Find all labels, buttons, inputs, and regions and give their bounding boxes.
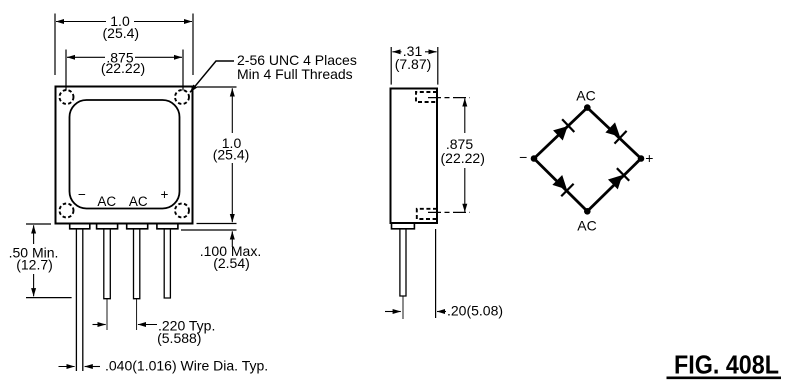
- center line top hole: [428, 97, 470, 99]
- screw hole top-right: [175, 90, 189, 104]
- svg-text:AC: AC: [576, 88, 595, 104]
- epoxy face (inner rounded square): [70, 100, 180, 209]
- pin 2: [104, 229, 111, 299]
- package body front view: [56, 87, 193, 224]
- svg-text:FIG. 408L: FIG. 408L: [674, 350, 779, 380]
- svg-text:.040(1.016) Wire Dia. Typ.: .040(1.016) Wire Dia. Typ.: [105, 357, 268, 373]
- dimension .040 wire dia: [59, 366, 75, 368]
- svg-text:AC: AC: [97, 194, 116, 209]
- svg-text:AC: AC: [577, 218, 596, 234]
- pin stub 2: [97, 224, 118, 229]
- svg-text:(22.22): (22.22): [101, 60, 145, 76]
- screw hole bottom-right: [175, 204, 189, 218]
- bridge wire top-right: [587, 108, 641, 159]
- diode D3 bottom-left: [551, 174, 574, 197]
- diode D4 bottom-right: [607, 168, 629, 191]
- dimension .31 (7.87): [390, 47, 392, 85]
- svg-text:−: −: [78, 187, 86, 202]
- center line bottom hole: [428, 211, 470, 213]
- side view body: [391, 89, 438, 224]
- svg-text:(7.87): (7.87): [395, 56, 432, 72]
- svg-text:Min 4 Full Threads: Min 4 Full Threads: [237, 66, 353, 82]
- hidden screw hole top (dashed): [416, 92, 437, 102]
- dimension .100 Max (2.54): [181, 229, 237, 231]
- screw hole bottom-left: [60, 204, 74, 218]
- pin stub 1: [70, 224, 90, 229]
- dimension 1.0 (25.4) horizontal top: [54, 14, 56, 76]
- note 2-56 UNC leader: [190, 61, 234, 92]
- diode D1 top-left: [552, 119, 574, 142]
- svg-text:−: −: [519, 149, 527, 165]
- dimension 1.0 (25.4) vertical right: [197, 86, 237, 88]
- hidden screw hole bottom (dashed): [417, 209, 437, 219]
- svg-text:(25.4): (25.4): [213, 147, 250, 163]
- svg-text:(2.54): (2.54): [213, 255, 250, 271]
- pin 4: [164, 229, 170, 298]
- svg-text:(22.22): (22.22): [441, 150, 485, 166]
- svg-text:.20(5.08): .20(5.08): [447, 303, 503, 319]
- dimension .20 (5.08): [435, 229, 437, 318]
- bridge wire bottom-left: [534, 159, 587, 212]
- dimension .875 (22.22) vertical side view: [464, 98, 466, 133]
- svg-text:(12.7): (12.7): [16, 257, 53, 273]
- screw hole top-left: [60, 90, 74, 104]
- node AC top: [584, 104, 591, 111]
- dimension .220 Typ (5.588): [93, 324, 106, 326]
- bridge wire bottom-right: [587, 159, 641, 212]
- svg-text:AC: AC: [129, 194, 148, 209]
- svg-text:(5.588): (5.588): [157, 330, 201, 346]
- svg-text:+: +: [161, 187, 169, 202]
- side view pin stub: [392, 223, 415, 229]
- dimension .875 (22.22) horizontal: [65, 50, 67, 91]
- pin 3 centerline extension: [136, 299, 138, 330]
- bridge wire top-left: [534, 108, 587, 159]
- pin stub 3: [127, 224, 148, 229]
- side view pin: [400, 229, 406, 296]
- svg-text:(25.4): (25.4): [103, 25, 140, 41]
- side view pin centerline: [402, 296, 404, 319]
- node minus left: [531, 155, 538, 162]
- dimension .50 Min (12.7): [26, 223, 51, 225]
- pin 3: [134, 229, 140, 299]
- svg-text:+: +: [645, 150, 653, 166]
- pin 2 centerline extension: [106, 299, 108, 330]
- node plus right: [638, 155, 645, 162]
- node AC bottom: [584, 208, 591, 215]
- title underline: [667, 376, 782, 379]
- pin 1 wire (long): [75, 229, 77, 371]
- diode D2 top-right: [604, 121, 626, 144]
- pin stub 4: [157, 224, 178, 229]
